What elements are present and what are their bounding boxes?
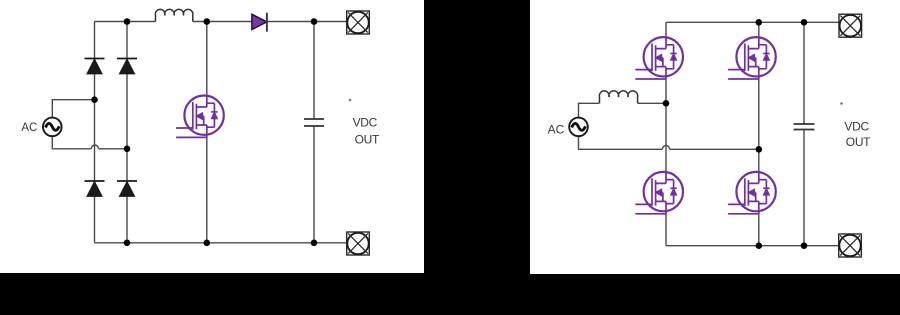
- svg-text:OUT: OUT: [846, 135, 871, 149]
- svg-text:AC: AC: [21, 122, 37, 134]
- svg-text:AC: AC: [548, 123, 565, 137]
- svg-text:OUT: OUT: [355, 133, 380, 147]
- svg-text:VDC: VDC: [353, 115, 378, 129]
- svg-text:VDC: VDC: [844, 120, 869, 134]
